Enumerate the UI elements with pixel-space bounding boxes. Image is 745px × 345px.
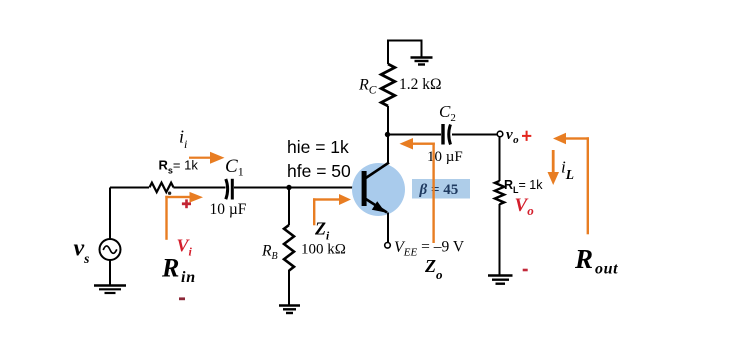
wire Rs to C1 [173, 187, 225, 189]
svg-text:10 µF: 10 µF [210, 201, 247, 218]
node collector [385, 132, 390, 137]
wire RB top [288, 188, 290, 226]
resistor RC [381, 64, 395, 106]
wire RB bottom [288, 270, 290, 305]
svg-text:in: in [181, 269, 196, 286]
ground source [94, 286, 126, 294]
transistor Q1 [352, 163, 405, 217]
svg-text:10 µF: 10 µF [427, 149, 463, 165]
wire RC top [388, 41, 422, 65]
svg-text:100 kΩ: 100 kΩ [301, 242, 346, 258]
terminal vo [497, 131, 503, 137]
svg-text:Zi: Zi [314, 219, 330, 243]
annotation Rout bracket [553, 133, 589, 235]
ground top [411, 58, 433, 65]
svg-text:Rs= 1k: Rs= 1k [159, 158, 199, 176]
label minus (vi) [179, 297, 185, 300]
ground RB [279, 306, 300, 314]
svg-text:β = 45: β = 45 [419, 182, 459, 198]
svg-text:ii: ii [179, 127, 187, 152]
svg-text:hie = 1k: hie = 1k [287, 137, 349, 157]
capacitor C2 [443, 124, 451, 145]
svg-text:R: R [574, 244, 593, 274]
resistor Rs [150, 183, 174, 192]
annotation Zi arrow [313, 194, 351, 225]
wire RL bottom [499, 204, 501, 275]
svg-text:RL= 1k: RL= 1k [504, 178, 543, 195]
svg-text:out: out [595, 261, 618, 278]
resistor RB [284, 225, 294, 271]
svg-text:C1: C1 [225, 156, 244, 179]
current arrow ii [189, 152, 225, 164]
svg-text:vo: vo [506, 127, 519, 146]
terminal VEE [385, 243, 391, 249]
svg-text:Vo: Vo [515, 195, 535, 218]
wire node to RC [387, 106, 389, 135]
svg-text:R: R [161, 254, 179, 283]
svg-text:iL: iL [561, 158, 574, 183]
beta box [412, 179, 470, 199]
svg-text:C2: C2 [439, 102, 456, 124]
svg-text:vs: vs [74, 236, 90, 267]
annotation Zo arrow [400, 138, 435, 243]
wire source bottom [109, 260, 111, 285]
wire collector up [387, 135, 389, 164]
capacitor C1 [226, 179, 233, 200]
wire C1 to base [234, 187, 362, 189]
ground RL [488, 276, 513, 284]
wire source top [109, 188, 111, 240]
wire node to C2 [388, 134, 442, 136]
svg-text:1.2 kΩ: 1.2 kΩ [399, 76, 442, 93]
label plus (vi) [182, 199, 191, 208]
wire C2 to vo [452, 134, 497, 136]
wire emitter down [387, 213, 389, 243]
node vi probe dot [168, 192, 171, 195]
svg-text:RC: RC [358, 77, 377, 97]
svg-text:Zo: Zo [424, 256, 443, 282]
source vs [100, 239, 121, 260]
svg-text:RB: RB [261, 243, 278, 263]
label plus (vo) [522, 131, 531, 141]
svg-text:hfe = 50: hfe = 50 [287, 161, 351, 181]
annotation vi bracket [165, 192, 203, 240]
node base junction [286, 185, 291, 190]
wire vo to RL [499, 137, 501, 182]
wire source to Rs [110, 187, 149, 189]
label minus (vo) [523, 269, 528, 272]
resistor RL [495, 181, 504, 204]
current arrow iL [548, 150, 560, 185]
